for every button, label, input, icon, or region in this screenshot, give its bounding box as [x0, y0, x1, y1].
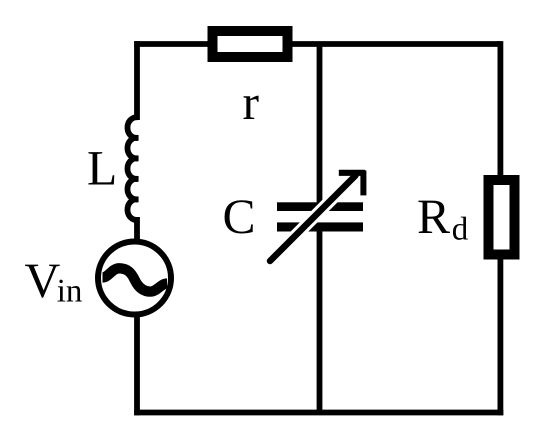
- svg-text:C: C: [223, 189, 256, 244]
- svg-text:r: r: [243, 75, 260, 130]
- svg-text:V: V: [25, 253, 61, 308]
- svg-text:L: L: [87, 141, 117, 196]
- svg-text:d: d: [452, 212, 469, 248]
- svg-text:R: R: [417, 189, 450, 244]
- svg-text:in: in: [57, 274, 83, 310]
